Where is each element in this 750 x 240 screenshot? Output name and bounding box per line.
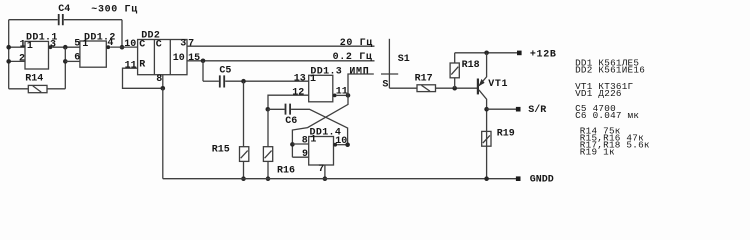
svg-text:VT1: VT1 [488, 79, 508, 90]
svg-text:13: 13 [294, 73, 306, 84]
wire pin8 stub [292, 143, 308, 145]
terminal +12V [517, 51, 522, 56]
node R18 bottom junction [452, 86, 457, 91]
wire 20Hz output line [187, 45, 375, 47]
wire S/R [487, 108, 516, 110]
svg-text:5: 5 [74, 38, 80, 49]
wire C5 left segment [203, 80, 219, 82]
svg-text:C: C [139, 39, 145, 50]
svg-text:R19 1к: R19 1к [580, 146, 615, 157]
switch S1 [381, 39, 410, 91]
resistor R16 [263, 147, 295, 177]
svg-text:10: 10 [124, 39, 136, 50]
svg-text:S/R: S/R [528, 104, 546, 116]
node C4-out junction [120, 45, 125, 50]
node pin1 junction [6, 45, 11, 50]
terminal GNDD [516, 176, 521, 181]
wire R16 vertical bottom [267, 161, 269, 178]
wire C5 branch vertical [202, 61, 204, 81]
svg-text:7: 7 [188, 39, 194, 50]
node R16 ground junction [266, 176, 271, 181]
svg-text:0.2 Гц: 0.2 Гц [333, 52, 373, 63]
logic gate DD1.1 box [25, 41, 49, 69]
wire R14 left segment [9, 88, 29, 90]
svg-text:S1: S1 [398, 54, 410, 65]
svg-text:8: 8 [156, 74, 162, 85]
wire ground rail [163, 178, 516, 180]
capacitor C4 [58, 4, 70, 25]
svg-text:3: 3 [180, 39, 186, 50]
svg-text:R14: R14 [25, 74, 43, 85]
wire DD1.3 output [337, 94, 348, 96]
svg-text:2: 2 [19, 54, 25, 65]
svg-text:11: 11 [125, 60, 137, 71]
logic gate DD1.2 box [80, 41, 106, 67]
node C6 junction [266, 107, 271, 112]
wire DD1.4 pin7 ground stub [324, 165, 326, 179]
wire DD2 pin11 reset [123, 68, 163, 88]
node R15 ground junction [241, 176, 246, 181]
svg-text:1: 1 [20, 39, 26, 50]
wire pin2 [9, 60, 25, 62]
node pin7 ground junction [323, 176, 328, 181]
gate DD1.3 box [309, 75, 333, 102]
svg-text:6: 6 [74, 53, 80, 64]
wire left vertical [8, 20, 10, 89]
gate DD1.4 output bubble [333, 143, 337, 147]
resistor R19 [482, 129, 515, 147]
svg-text:1: 1 [310, 135, 316, 146]
wire S1 to R17 [389, 87, 417, 89]
svg-text:VD1 Д226: VD1 Д226 [575, 88, 622, 99]
wire R15 vertical top [243, 81, 245, 147]
svg-text:R19: R19 [497, 129, 515, 140]
node DD1.3 output junction [346, 93, 351, 98]
svg-text:1: 1 [27, 41, 33, 52]
wire C6 left segment [268, 108, 285, 110]
svg-text:8: 8 [302, 135, 308, 146]
node emitter junction [484, 51, 489, 56]
capacitor C5 [219, 66, 231, 88]
wire pin6 [65, 60, 80, 62]
node pin8/11 junction [161, 86, 166, 91]
node pin6 junction [63, 59, 68, 64]
node pin2 junction [6, 59, 11, 64]
svg-text:15: 15 [188, 53, 200, 64]
resistor R17 [415, 73, 436, 91]
wire R15 vertical bottom [243, 161, 245, 178]
wire DD1.4 output [337, 144, 348, 146]
svg-text:R17: R17 [415, 73, 433, 84]
svg-text:9: 9 [302, 149, 308, 160]
resistor R18 [450, 53, 480, 88]
wire C4 right vertical [121, 20, 123, 48]
svg-text:GNDD: GNDD [530, 175, 554, 186]
wire pin9 stub [292, 156, 308, 158]
wire pin3 to pin5 [52, 46, 80, 48]
svg-text:C5: C5 [219, 66, 231, 77]
terminal S/R [516, 107, 521, 112]
counter DD2 box [138, 30, 187, 74]
wire R14 right segment [47, 88, 65, 90]
wire C5 right segment to pin13 [225, 80, 309, 82]
wire top rail right of C4 [64, 19, 122, 21]
wire top rail left of C4 [9, 19, 58, 21]
gate DD1.1 output bubble [49, 45, 53, 49]
svg-text:~300 Гц: ~300 Гц [91, 5, 138, 16]
svg-text:+12В: +12В [530, 50, 557, 61]
svg-text:20 Гц: 20 Гц [340, 38, 373, 49]
gate DD1.2 output bubble [106, 45, 110, 49]
svg-text:12: 12 [292, 87, 304, 98]
node R19 ground junction [484, 176, 489, 181]
gate DD1.4 box [309, 137, 334, 166]
wire +12V rail [455, 52, 517, 54]
capacitor C6 [285, 104, 297, 127]
node collector S/R junction [484, 107, 489, 112]
wire R14 right vertical [64, 47, 66, 89]
resistor R14 [25, 74, 47, 93]
resistor R15 [212, 145, 249, 162]
wire IMP vertical and horizontal [348, 74, 374, 95]
transistor Q1 VT1 [478, 53, 508, 179]
svg-text:1: 1 [82, 39, 88, 50]
node DD1.4 input junction [290, 142, 295, 147]
svg-text:DD2 К561ИЕ16: DD2 К561ИЕ16 [575, 65, 645, 76]
svg-text:R18: R18 [462, 60, 480, 71]
gate DD1.3 output bubble [333, 94, 337, 98]
wire pin1 [9, 46, 25, 48]
svg-text:C: C [156, 39, 162, 50]
svg-text:C4: C4 [58, 4, 70, 15]
node DD1.4 output junction [345, 142, 350, 147]
wire 0.2Hz output line [187, 60, 375, 62]
wire C6 right segment and diagonal to DD1.4 output [291, 109, 348, 144]
node R14 top junction [63, 45, 68, 50]
svg-text:7: 7 [318, 164, 324, 175]
node R15 top junction [241, 79, 246, 84]
wire pin12 [268, 95, 309, 109]
svg-text:ИМП: ИМП [349, 67, 369, 78]
svg-text:R16: R16 [277, 166, 295, 177]
wire DD2 ground vertical [162, 88, 164, 178]
svg-text:1: 1 [310, 74, 316, 85]
svg-text:C6: C6 [285, 116, 297, 127]
svg-text:10: 10 [173, 53, 185, 64]
svg-text:R: R [139, 60, 145, 71]
node C5 branch junction [201, 59, 206, 64]
wire crossing diagonal to DD1.4 inputs [292, 95, 348, 157]
svg-text:R15: R15 [212, 145, 230, 156]
wire R17 to base [436, 87, 478, 89]
wire DD2 pin8 stub [162, 75, 164, 89]
parts list text block [575, 57, 650, 157]
svg-text:S: S [382, 80, 388, 91]
wire R16 vertical top [267, 109, 269, 146]
wire pin4 to DD2 pin10 [110, 46, 138, 48]
svg-text:C6 0.047 мк: C6 0.047 мк [575, 110, 639, 121]
